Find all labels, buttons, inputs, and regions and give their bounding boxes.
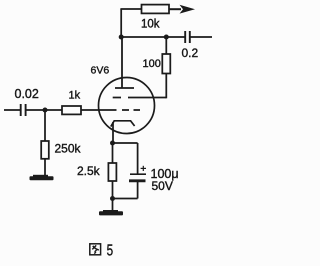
resistor 1k xyxy=(62,106,81,114)
value label 250k xyxy=(55,142,82,156)
value label 50V xyxy=(152,179,173,193)
node plate xyxy=(119,35,124,40)
control grid (dashed) xyxy=(122,109,129,111)
node screen-resistor tap xyxy=(164,35,169,40)
caption: 5 xyxy=(107,242,114,259)
tube U1 6V6 envelope xyxy=(99,78,155,134)
wire 250k to ground xyxy=(44,159,46,176)
caption: 图 (drawn glyph) xyxy=(90,244,101,255)
wire cathode rail bottom xyxy=(113,198,138,200)
svg-text:1k: 1k xyxy=(69,90,81,102)
wire grid to tube xyxy=(81,109,117,111)
value label 10k xyxy=(141,18,160,30)
value label 2.5k xyxy=(77,164,101,178)
svg-text:100: 100 xyxy=(143,58,161,70)
wire node to 250k xyxy=(44,110,46,141)
value label 0.02 xyxy=(15,87,39,101)
svg-text:50V: 50V xyxy=(152,179,173,193)
wire output xyxy=(190,36,212,38)
cathode xyxy=(111,121,135,127)
resistor 250k xyxy=(41,141,49,159)
wire cathode lead xyxy=(112,122,114,143)
wire down to bypass cap xyxy=(137,143,139,174)
value label 0.2 xyxy=(182,46,199,60)
wire plate rail xyxy=(121,36,185,38)
capacitor C-out 0.2 xyxy=(185,31,190,43)
svg-text:10k: 10k xyxy=(141,18,160,30)
ground bottom xyxy=(99,210,123,215)
tube label 6V6 xyxy=(91,64,110,76)
wire cap to grid resistor xyxy=(26,109,62,111)
svg-text:5: 5 xyxy=(107,242,114,259)
svg-text:250k: 250k xyxy=(55,142,82,156)
wire to ground xyxy=(112,199,114,212)
screen grid (dashed) xyxy=(113,97,121,99)
svg-text:0.2: 0.2 xyxy=(182,46,199,60)
wire cathode rail top xyxy=(113,142,138,144)
wire screen to 100 ohm xyxy=(128,97,166,99)
wire 10k to B+ xyxy=(169,8,181,10)
resistor 100 (screen dropper) xyxy=(162,54,170,74)
node junction input xyxy=(43,108,48,113)
plate (anode) xyxy=(115,37,134,88)
resistor 10k xyxy=(142,5,170,14)
wire input left xyxy=(4,109,20,111)
svg-text:2.5k: 2.5k xyxy=(77,164,101,178)
wire up to 10k xyxy=(120,9,122,37)
value label 100 xyxy=(143,58,161,70)
value label 1k xyxy=(69,90,81,102)
wire 100 to rail xyxy=(165,37,167,54)
svg-text:0.02: 0.02 xyxy=(15,87,39,101)
B+ arrow xyxy=(180,5,196,14)
ground left xyxy=(30,175,54,181)
wire cap to bottom rail xyxy=(137,181,139,199)
capacitor C-in 0.02 xyxy=(21,104,26,116)
resistor 2.5k (cathode) xyxy=(112,143,114,163)
capacitor 100u 50V (electrolytic) xyxy=(129,166,146,181)
svg-text:6V6: 6V6 xyxy=(91,64,110,76)
value label 100u xyxy=(151,167,179,181)
node bottom junction xyxy=(110,196,115,201)
node cathode junction xyxy=(110,141,115,146)
